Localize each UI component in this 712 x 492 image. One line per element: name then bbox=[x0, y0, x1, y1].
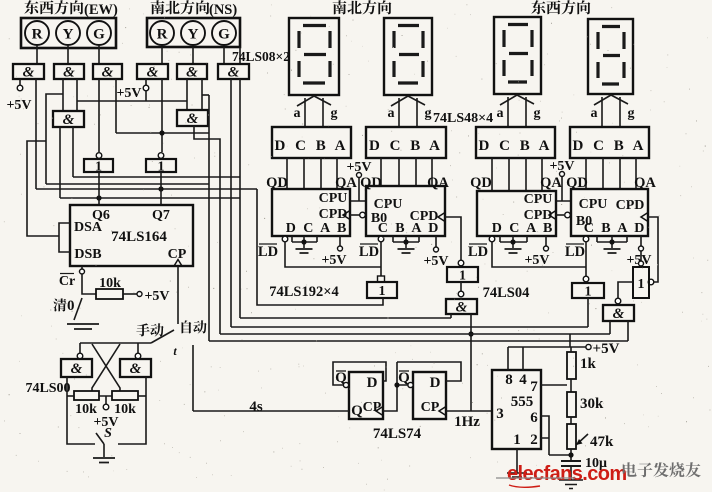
ground (pin 1) bbox=[507, 473, 527, 477]
svg-text:CP: CP bbox=[421, 400, 440, 415]
label EW direction (right header) bbox=[531, 0, 590, 14]
svg-text:CPU: CPU bbox=[374, 197, 403, 212]
flip-flop FF2 74LS74 bbox=[413, 372, 446, 419]
wire latch output risers to manual rail bbox=[80, 343, 138, 353]
svg-text:CPU: CPU bbox=[319, 191, 348, 206]
wire 1Hz line (555 out to FF2 CP) bbox=[446, 410, 492, 412]
wire pin D to +5V (C2) bbox=[435, 236, 437, 247]
wire 74LS164 CP down to mode switch bbox=[177, 266, 179, 324]
7-segment display DS4 (EW ones) bbox=[588, 19, 633, 94]
wire G7 second pin to bus M0 bbox=[72, 127, 74, 177]
wires decoder U5 to counter C3 bbox=[492, 158, 542, 191]
bubble (1E input) bbox=[583, 276, 589, 282]
svg-text:S: S bbox=[104, 426, 112, 441]
svg-text:CPU: CPU bbox=[524, 192, 553, 207]
watermark underline bbox=[496, 477, 575, 479]
junction (C4 preset) bbox=[609, 239, 614, 244]
AND gate G6 (G-NS driver) bbox=[218, 64, 249, 79]
svg-text:&: & bbox=[130, 361, 142, 377]
wire FF2 Qbar down to FF1 CP bbox=[383, 362, 397, 411]
ground (S) bbox=[93, 458, 115, 463]
wire GB right input down to 1Hz bbox=[470, 314, 472, 411]
lamp G (EW) bbox=[87, 21, 111, 45]
wire R1 to +5V terminal bbox=[123, 293, 137, 295]
resistor R1 10k (Cr pull-up) bbox=[96, 289, 123, 299]
wire bus M2 (y=189) bbox=[36, 188, 257, 190]
clock wedge (FF1) bbox=[376, 407, 383, 416]
wire C2 borrow to C1 CPD bbox=[350, 214, 360, 216]
terminal LD (C2) bbox=[378, 236, 384, 242]
ground tie pins C B A (C4) bbox=[597, 236, 627, 248]
lamp R (EW) bbox=[25, 21, 49, 45]
counter C3 74LS192 (EW tens) bbox=[477, 191, 556, 236]
inverter 1C (NS load) bbox=[367, 282, 397, 298]
svg-text:D C B A: D C B A bbox=[479, 138, 553, 154]
wire pin B to +5V (C3) bbox=[545, 236, 547, 246]
label East-West direction (EW) bbox=[24, 0, 83, 14]
svg-text:+5V: +5V bbox=[524, 253, 549, 268]
wire R3 to rail bbox=[138, 395, 146, 397]
svg-text:&: & bbox=[147, 65, 159, 81]
wire G2/G7 second input bbox=[76, 79, 78, 111]
clock wedge (FF2) bbox=[439, 407, 446, 416]
svg-text:DSA: DSA bbox=[74, 220, 103, 235]
wire lamp G-NS to gate G6 bbox=[223, 47, 225, 64]
wire cross-couple b bbox=[92, 344, 120, 391]
svg-text:&: & bbox=[71, 361, 83, 377]
svg-text:+5V: +5V bbox=[423, 254, 448, 269]
junction (C2 preset) bbox=[403, 239, 408, 244]
svg-text:&: & bbox=[456, 300, 468, 316]
wire bus B1 (LD drive) bbox=[257, 189, 383, 305]
AND gate G1 (R-EW driver) bbox=[13, 64, 44, 79]
svg-text:&: & bbox=[613, 306, 625, 322]
terminal above 1F input bbox=[639, 261, 644, 266]
svg-text:&: & bbox=[63, 65, 75, 81]
AND gate GD bbox=[603, 305, 634, 321]
lamp Y (NS) bbox=[181, 21, 205, 45]
svg-text:D C B A: D C B A bbox=[369, 138, 443, 154]
wire +5V to CPU link C1-C2 bbox=[350, 178, 366, 201]
lamp G (NS) bbox=[212, 21, 236, 45]
ground (cap) bbox=[559, 480, 583, 489]
AND gate G8 (NS enable) bbox=[177, 110, 208, 126]
svg-text:10k: 10k bbox=[75, 402, 97, 417]
label qing-0 (clear) bbox=[53, 298, 74, 314]
inverter 1A (Q6 buffer) bbox=[96, 153, 102, 159]
IC 555 timer bbox=[492, 370, 541, 449]
7-segment display DS1 (NS tens) bbox=[289, 18, 339, 95]
ground (C1 preset) bbox=[296, 249, 313, 253]
ground tie pins C B A (C2) bbox=[393, 236, 419, 248]
wire lamp Y-EW to gate G2 bbox=[67, 45, 69, 64]
ground (clear switch) bbox=[67, 324, 99, 329]
svg-text:LD: LD bbox=[258, 244, 278, 260]
bubble (1F output) bbox=[648, 279, 654, 285]
svg-text:74LS192×4: 74LS192×4 bbox=[269, 284, 339, 300]
svg-text:+5V: +5V bbox=[116, 86, 141, 101]
junction (C1 preset) bbox=[301, 239, 306, 244]
svg-text:Q7: Q7 bbox=[152, 208, 170, 223]
wires decoder U4 to counter C2 bbox=[381, 158, 432, 186]
wire pin 6 to divider bbox=[541, 416, 549, 455]
label North-South direction (NS) bbox=[151, 0, 210, 14]
ground tie pins D C A (C1) bbox=[292, 236, 317, 248]
ground (C4 preset) bbox=[604, 249, 621, 253]
svg-text:QA: QA bbox=[540, 175, 562, 191]
potentiometer R6 47k bbox=[567, 424, 576, 449]
junction GB input on bus B4 bbox=[468, 331, 473, 336]
svg-text:1: 1 bbox=[459, 269, 466, 284]
ground (C2 preset) bbox=[398, 249, 415, 253]
svg-text:Y: Y bbox=[188, 27, 199, 43]
wire lamp R-EW to gate G1 bbox=[36, 45, 38, 64]
counter C1 74LS192 (NS tens) bbox=[272, 189, 350, 236]
svg-text:Q: Q bbox=[351, 403, 363, 419]
bubble B0 (C4) bbox=[565, 212, 571, 218]
bracket joining DSA and DSB bbox=[59, 223, 70, 252]
terminal +5V (C1-C2) bbox=[357, 173, 362, 178]
ground tie pins D C A (C3) bbox=[500, 236, 527, 248]
svg-text:74LS48×4: 74LS48×4 bbox=[433, 111, 493, 126]
wire G5 input down to G8 bbox=[186, 79, 188, 111]
EW traffic-light panel box bbox=[21, 18, 116, 48]
terminal LD (C3) bbox=[489, 236, 495, 242]
terminal LD (C4) bbox=[583, 236, 589, 242]
svg-text:1: 1 bbox=[513, 432, 521, 448]
wire C4 borrow to C3 CPD bbox=[556, 214, 564, 216]
wire G7 output down to bus M3 bbox=[59, 127, 61, 198]
svg-text:Y: Y bbox=[63, 27, 74, 43]
wire manual rail bbox=[80, 342, 151, 344]
wire G8 output hook to rail x194-220 bbox=[194, 126, 220, 334]
terminal LD (C1) bbox=[282, 236, 288, 242]
wires decoder U3 to counter C1 (QD..QA) bbox=[287, 158, 337, 189]
wire G1 input to +5V terminal bbox=[19, 79, 21, 85]
clock wedge CPD (C3) bbox=[549, 211, 556, 220]
NAND gate U2a 74LS00 bbox=[61, 359, 92, 377]
wire DSA/DSB feed tap bbox=[27, 141, 59, 236]
svg-text:g: g bbox=[534, 106, 541, 121]
svg-text:7: 7 bbox=[530, 379, 538, 395]
svg-text:g: g bbox=[628, 106, 635, 121]
svg-text:D C A B: D C A B bbox=[492, 221, 555, 236]
terminal latch output b bbox=[135, 353, 141, 359]
svg-text:6: 6 bbox=[530, 410, 538, 426]
terminal +5V (555 rail) bbox=[586, 344, 591, 349]
wire 1F input from GD bbox=[618, 282, 633, 298]
7-segment display DS3 (EW tens) bbox=[494, 17, 541, 94]
wire G5 hook to rail x209 bbox=[202, 94, 209, 96]
svg-text:1Hz: 1Hz bbox=[454, 414, 480, 430]
wire LD C1-C2 to inverter 1C bbox=[285, 242, 381, 276]
svg-text:47k: 47k bbox=[590, 434, 614, 450]
svg-text:D C B A: D C B A bbox=[275, 138, 349, 154]
svg-text:D: D bbox=[367, 375, 378, 391]
svg-text:CPU: CPU bbox=[579, 197, 608, 212]
wire G5/G8 second input bbox=[201, 79, 203, 111]
svg-text:0: 0 bbox=[67, 298, 75, 314]
terminal +5V pin B (C3) bbox=[544, 246, 549, 251]
wire C2 CPD to inverter 1D bbox=[445, 217, 461, 260]
junction buffer-1A output on M3 bbox=[96, 195, 101, 200]
bubble Qbar (FF2) bbox=[408, 382, 413, 387]
switch S lever bbox=[96, 433, 104, 444]
bus arrow a-g DS2 bbox=[399, 98, 417, 127]
ground (C3 preset) bbox=[505, 249, 522, 253]
svg-text:DSB: DSB bbox=[74, 247, 101, 262]
wire bus B2 bbox=[240, 317, 451, 319]
wire pin 7 to R4/R5 junction bbox=[541, 384, 567, 386]
svg-text:1: 1 bbox=[379, 284, 386, 299]
svg-text:30k: 30k bbox=[580, 396, 604, 412]
svg-text:&: & bbox=[186, 65, 198, 81]
wire R4 top to rail bbox=[570, 347, 572, 352]
svg-text:+5V: +5V bbox=[321, 253, 346, 268]
switch lever manual/auto bbox=[151, 330, 174, 343]
svg-text:2: 2 bbox=[530, 432, 538, 448]
bus arrow a-g DS3 bbox=[508, 97, 526, 127]
watermark red stroke bbox=[509, 485, 540, 487]
svg-text:elecfans.com: elecfans.com bbox=[507, 463, 627, 485]
svg-text:D: D bbox=[430, 375, 441, 391]
wire GB left input from bus B2 bbox=[450, 314, 452, 318]
AND gate GB bbox=[446, 299, 477, 314]
label NS direction (middle header) bbox=[333, 0, 392, 14]
wire branch G2 to left rail bbox=[46, 94, 63, 184]
wire lamp Y-NS to gate G5 bbox=[192, 47, 194, 64]
hysteresis square (1C input) bbox=[378, 276, 385, 282]
decoder U6 74LS48 (DS4) bbox=[570, 127, 649, 158]
decoder U3 74LS48 (DS1) bbox=[272, 127, 351, 158]
terminal +5V (C3-C4) bbox=[560, 172, 565, 177]
wire Cr pin of 74LS164 bbox=[81, 266, 83, 269]
inverter 1D bbox=[447, 267, 478, 282]
wire pin D to +5V (C4) bbox=[640, 236, 642, 261]
junction (C3 preset) bbox=[510, 239, 515, 244]
svg-text:C B A D: C B A D bbox=[584, 221, 647, 236]
resistor R3 10k bbox=[112, 391, 138, 400]
wire +5V to CPU link C3-C4 bbox=[556, 177, 571, 201]
svg-text:74LS74: 74LS74 bbox=[373, 426, 422, 442]
svg-text:a: a bbox=[388, 106, 395, 121]
wire G3 input from buffer 1A bbox=[98, 79, 100, 152]
wire NS panel corner to gate G6 bbox=[239, 47, 241, 64]
svg-text:&: & bbox=[102, 65, 114, 81]
clock wedge CPD (C2) bbox=[438, 213, 445, 222]
svg-text:555: 555 bbox=[511, 394, 534, 410]
NAND gate U2b 74LS00 bbox=[120, 359, 151, 377]
svg-text:3: 3 bbox=[496, 406, 504, 422]
wire bus B4 bbox=[220, 333, 610, 335]
wire C4 CPD to inverter 1F bbox=[648, 217, 658, 282]
lamp Y (EW) bbox=[56, 21, 80, 45]
terminal +5V pin D (C4) bbox=[639, 246, 644, 251]
bus arrow a-g DS4 bbox=[602, 97, 620, 127]
inverter 1F bbox=[633, 267, 649, 298]
wire +5V rail (555) bbox=[508, 346, 586, 348]
NS traffic-light panel box bbox=[147, 18, 240, 47]
terminal +5V (latch mid) bbox=[103, 404, 109, 410]
svg-text:74LS04: 74LS04 bbox=[483, 285, 530, 301]
terminal Cr bbox=[80, 269, 85, 274]
decoder U5 74LS48 (DS3) bbox=[476, 127, 555, 158]
wire bus B3 to inverter 1E bbox=[231, 298, 588, 327]
svg-text:4s: 4s bbox=[249, 399, 263, 415]
AND gate G3 (G-EW driver) bbox=[93, 64, 122, 79]
wire R4-R5 bbox=[570, 379, 572, 392]
svg-text:74LS00: 74LS00 bbox=[25, 381, 70, 396]
decoder U4 74LS48 (DS2) bbox=[366, 127, 446, 158]
svg-text:R: R bbox=[32, 27, 43, 43]
svg-text:1: 1 bbox=[585, 285, 592, 300]
wire G4 stub to y101 bbox=[145, 91, 147, 101]
shift register U1 74LS164 bbox=[70, 205, 193, 266]
junction buffer-1B output on M2 bbox=[158, 186, 163, 191]
svg-text:&: & bbox=[228, 65, 240, 81]
junction G4/y133/1B bbox=[159, 130, 164, 135]
wire bus M0 (y=177) bbox=[73, 176, 240, 178]
wire FF1 Qbar to D feedback bbox=[333, 362, 386, 385]
capacitor C5 10u bbox=[561, 461, 581, 466]
AND gate G4 (R-NS driver) bbox=[137, 64, 168, 79]
resistor R2 10k bbox=[74, 391, 99, 400]
AND gate G2 (Y-EW driver) bbox=[54, 64, 84, 79]
wire pins 6-2 to R6 bottom bbox=[549, 449, 571, 461]
switch 清0 lever bbox=[74, 298, 82, 320]
wire GD input a from bus B4 bbox=[609, 321, 611, 334]
svg-text:LD: LD bbox=[565, 244, 585, 260]
clock wedge CPD (C4) bbox=[641, 213, 648, 222]
bubble (1D output) bbox=[458, 291, 464, 297]
svg-text:+5V: +5V bbox=[144, 289, 169, 304]
svg-text:74LS164: 74LS164 bbox=[111, 229, 167, 245]
wire R2 to rail bbox=[67, 395, 74, 397]
terminal +5V under G1 bbox=[17, 85, 23, 91]
wire 4s line (FF1 Q output) bbox=[193, 410, 349, 412]
wire bus M3 (y=198) bbox=[60, 197, 240, 199]
wire G6 input down rail x240 to bus B2 bbox=[239, 79, 241, 318]
wire line y133 to rail x209 bbox=[116, 132, 209, 134]
terminal +5V pin D (C2) bbox=[434, 247, 439, 252]
junction FF2 Qbar node bbox=[394, 382, 399, 387]
lamp R (NS) bbox=[150, 21, 174, 45]
counter C4 74LS192 (EW ones) bbox=[571, 189, 648, 236]
wire R2-R3 midpoint bbox=[99, 396, 112, 404]
svg-text:74LS08×2: 74LS08×2 bbox=[232, 49, 290, 64]
svg-text:G: G bbox=[218, 27, 230, 43]
pot arrow (R6) bbox=[576, 434, 588, 445]
bubble Qbar (FF1) bbox=[343, 382, 348, 387]
svg-text:10k: 10k bbox=[114, 402, 136, 417]
svg-text:R: R bbox=[157, 27, 168, 43]
wire 1B to 74LS164 Q7 bbox=[160, 172, 162, 205]
wire cap to ground bbox=[570, 466, 572, 480]
svg-text:LD: LD bbox=[468, 244, 488, 260]
clock wedge on 74LS164 CP bbox=[174, 260, 182, 267]
bubble (1D input) bbox=[458, 260, 464, 266]
wire pin B to +5V (C1) bbox=[339, 236, 341, 246]
svg-text:C B A D: C B A D bbox=[378, 221, 441, 236]
junction R6 bottom bbox=[568, 452, 573, 457]
wire 1D to GB bbox=[460, 282, 462, 291]
svg-text:a: a bbox=[294, 106, 301, 121]
svg-text:D C B A: D C B A bbox=[573, 138, 647, 154]
wire bus B4 branch to 555 +5V rail bbox=[569, 334, 571, 347]
wire G4 input to +5V terminal bbox=[145, 79, 147, 85]
wire lamp R-NS to gate G4 bbox=[161, 47, 163, 64]
wire G2 input down to G7 bbox=[62, 79, 64, 111]
svg-text:QD: QD bbox=[360, 175, 382, 191]
clock wedge CPD (C1) bbox=[343, 211, 350, 220]
label manual 手动 bbox=[136, 323, 163, 336]
terminal +5V (R1) bbox=[137, 292, 142, 297]
wire 4s riser to auto contact bbox=[192, 345, 194, 411]
7-segment display DS2 (NS ones) bbox=[384, 18, 432, 95]
wire Cr to 10k resistor bbox=[82, 274, 96, 294]
counter C2 74LS192 (NS ones) bbox=[366, 186, 445, 236]
bubble (GD output) bbox=[615, 298, 621, 304]
wire latch left rail bbox=[67, 377, 95, 444]
wire FF2 Qbar feedback to D bbox=[397, 362, 461, 385]
label auto 自动 bbox=[182, 320, 207, 333]
bubble B0 (C2) bbox=[360, 212, 366, 218]
wire cross-coupling Y gates (y=101) bbox=[77, 100, 187, 102]
AND gate G5 (Y-NS driver) bbox=[177, 64, 207, 79]
svg-text:1k: 1k bbox=[580, 356, 597, 372]
resistor R5 30k bbox=[567, 392, 576, 417]
wire G6 input down rail x231 to bus B3 bbox=[230, 79, 232, 327]
svg-text:8: 8 bbox=[505, 372, 513, 388]
wire G4 input down to buffer 1B bbox=[161, 79, 163, 152]
svg-text:10k: 10k bbox=[99, 276, 121, 291]
terminal +5V pin B (C1) bbox=[338, 246, 343, 251]
wire G3 input to y133 line bbox=[115, 79, 117, 133]
wire 555 pin 1 to ground bbox=[516, 449, 518, 473]
wire bus M1 (y=184) bbox=[46, 183, 209, 185]
terminal +5V under G4 bbox=[143, 85, 149, 91]
svg-text:&: & bbox=[23, 65, 35, 81]
wire R5-R6 bbox=[570, 417, 572, 424]
svg-text:a: a bbox=[591, 106, 598, 121]
wire rail x209 (G5 hook down to bus B5) bbox=[208, 95, 210, 341]
svg-text:a: a bbox=[497, 106, 504, 121]
svg-text:D C A B: D C A B bbox=[286, 221, 349, 236]
wire bus B5 bbox=[209, 340, 628, 342]
svg-text:CPD: CPD bbox=[616, 198, 645, 213]
wire 1A to 74LS164 Q6 bbox=[98, 172, 100, 205]
svg-text:g: g bbox=[331, 106, 338, 121]
inverter 1E (EW load) bbox=[572, 283, 604, 298]
watermark chinese 电子发烧友 bbox=[623, 462, 701, 477]
svg-text:(NS): (NS) bbox=[209, 2, 237, 18]
svg-text:4: 4 bbox=[519, 372, 527, 388]
inverter 1B (Q7 buffer) bbox=[158, 153, 164, 159]
wire latch right rail bbox=[118, 377, 146, 444]
wires decoder U6 to counter C4 bbox=[586, 158, 636, 189]
svg-text:1: 1 bbox=[638, 277, 645, 292]
wire 555 pins 8 4 to +5V rail bbox=[508, 347, 523, 370]
svg-text:(EW): (EW) bbox=[84, 2, 118, 18]
terminal latch output a bbox=[77, 353, 83, 359]
wire GD input b from bus B5 bbox=[627, 321, 629, 341]
svg-text:+5V: +5V bbox=[593, 341, 620, 357]
wire LD C3-C4 to inverter 1E bbox=[492, 242, 586, 276]
svg-text:QD: QD bbox=[470, 175, 492, 191]
wire S to ground bbox=[103, 444, 105, 457]
flip-flop FF1 74LS74 bbox=[349, 372, 383, 419]
svg-text:&: & bbox=[187, 111, 199, 127]
